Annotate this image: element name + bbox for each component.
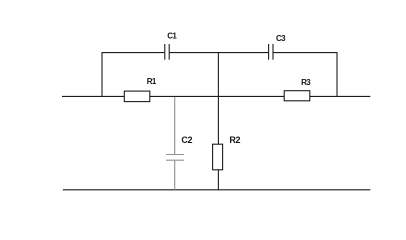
wire top middle segment: [170, 52, 268, 54]
wire top right segment: [274, 52, 338, 54]
resistor R1: [124, 91, 150, 102]
svg-text:R1: R1: [147, 77, 157, 86]
capacitor C1: [165, 44, 169, 60]
wire C2 branch lower (gray): [174, 161, 176, 190]
resistor R3: [284, 91, 310, 101]
wire left vertical: [101, 52, 103, 96]
wire C2 branch upper (gray): [174, 97, 176, 154]
capacitor C3: [269, 44, 273, 60]
wire right vertical: [336, 52, 338, 96]
svg-text:C1: C1: [167, 31, 177, 40]
svg-text:R2: R2: [229, 135, 240, 145]
resistor R2: [213, 144, 223, 170]
wire mid right segment: [310, 95, 370, 97]
svg-text:C2: C2: [181, 135, 192, 145]
svg-text:C3: C3: [276, 34, 286, 43]
wire top left segment: [102, 52, 164, 54]
wire mid center segment: [150, 95, 284, 97]
wire middle vertical upper: [217, 52, 219, 144]
wire bottom rail: [63, 189, 371, 191]
capacitor C2 (gray): [166, 155, 184, 161]
wire middle vertical lower: [217, 170, 219, 190]
svg-text:R3: R3: [301, 78, 311, 87]
wire mid left segment: [62, 95, 124, 97]
